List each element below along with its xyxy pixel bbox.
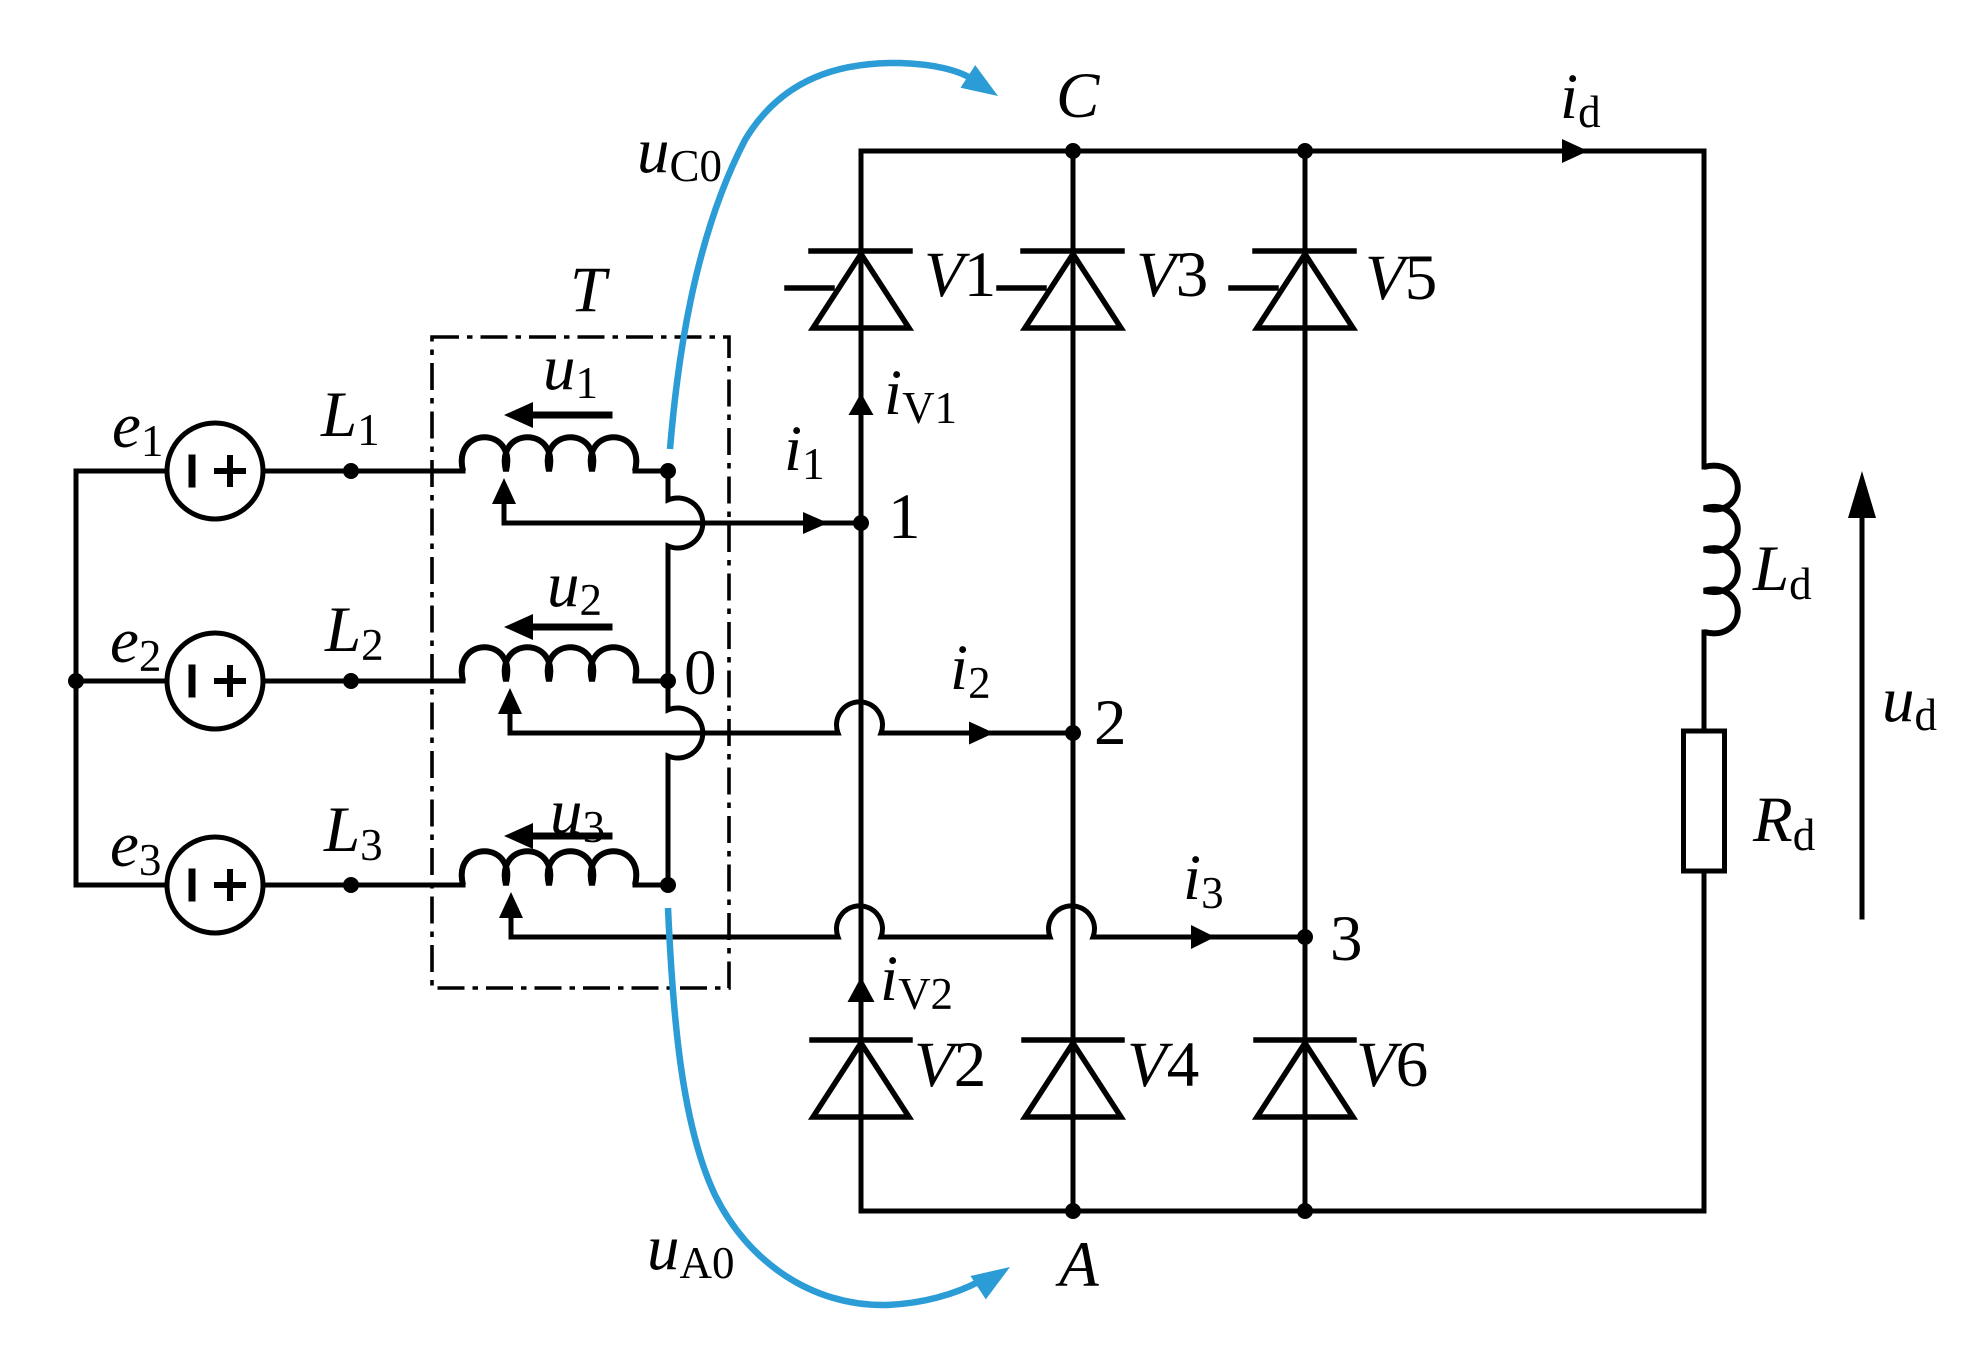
wire load branch top: [1702, 151, 1707, 467]
wire: [635, 679, 662, 684]
svg-text:V1: V1: [924, 239, 996, 311]
current arrow id: [1562, 139, 1588, 163]
voltage arrow ud: [1860, 505, 1865, 917]
wire bridge branch V5/V6: [1303, 151, 1308, 1211]
svg-text:0: 0: [684, 637, 717, 709]
junction dot node L: [343, 673, 359, 689]
resistor Rd: [1684, 731, 1725, 871]
wire: [76, 469, 167, 474]
svg-text:V6: V6: [1356, 1029, 1428, 1101]
wire: [263, 469, 463, 474]
wire: [76, 679, 167, 684]
svg-text:C: C: [1056, 60, 1100, 132]
wire: [263, 883, 463, 888]
junction dot node 3: [1297, 929, 1313, 945]
wire: [635, 469, 662, 474]
inductor Ld coil: [1704, 466, 1738, 634]
junction dot node C: [1065, 143, 1081, 159]
junction dot node 2: [1065, 725, 1081, 741]
svg-text:2: 2: [1094, 687, 1127, 759]
wire phase 3 to node 3 with hops: [511, 906, 1305, 937]
current arrow i3: [1191, 925, 1215, 949]
current arrow iV2: [848, 977, 875, 1002]
thyristor V3: [999, 251, 1122, 328]
junction dot node 0: [660, 673, 676, 689]
voltage arrow u: [536, 412, 609, 419]
wire phase 1 to node 1: [504, 521, 861, 526]
junction dot top rail at V5: [1297, 143, 1313, 159]
current arrow i2: [969, 722, 994, 745]
svg-text:V5: V5: [1365, 242, 1437, 314]
wire load branch bottom: [1702, 871, 1707, 1211]
junction dot node A: [1297, 1203, 1313, 1219]
junction dot bottom rail at V4: [1065, 1203, 1081, 1219]
wire: [76, 883, 167, 888]
thyristor V1: [787, 251, 910, 328]
svg-text:V4: V4: [1127, 1029, 1199, 1101]
transformer winding u1 (coil): [462, 437, 637, 471]
thyristor V4: [1024, 1040, 1122, 1117]
wire star bus with crossover hops: [668, 471, 703, 885]
svg-text:V3: V3: [1136, 239, 1208, 311]
junction dot node L: [343, 463, 359, 479]
wire top rail (common cathode C): [861, 149, 1704, 154]
voltage source e3: [167, 837, 263, 933]
blue arc uA0 (A to 0): [668, 908, 980, 1305]
wire phase 2 tap with polarity arrow: [508, 715, 513, 733]
voltage arrow u: [536, 624, 609, 631]
junction dot winding3 end: [660, 877, 676, 893]
wire phase 3 tap with polarity arrow: [509, 919, 514, 937]
voltage arrow u: [536, 833, 609, 840]
junction dot left bus: [68, 673, 84, 689]
voltage source e1: [167, 423, 263, 519]
thyristor V5: [1231, 251, 1354, 328]
wire left bus: [74, 471, 79, 885]
junction dot node L: [343, 877, 359, 893]
transformer winding u2 (coil): [462, 647, 637, 681]
current arrow iV1: [849, 393, 874, 415]
transformer T dash-dot box: [432, 337, 729, 988]
wire bottom rail (common anode A): [861, 1209, 1704, 1214]
thyristor V6: [1256, 1040, 1354, 1117]
voltage source e2: [167, 633, 263, 729]
svg-text:A: A: [1055, 1229, 1099, 1301]
junction dot node 1: [853, 515, 869, 531]
wire bridge branch V1/V2: [859, 151, 864, 1211]
svg-text:T: T: [570, 254, 610, 326]
wire: [263, 679, 463, 684]
svg-text:1: 1: [888, 481, 921, 553]
blue arc uC0 (C to 0): [670, 63, 972, 449]
wire phase 1 tap with polarity arrow: [502, 505, 507, 523]
wire bridge branch V3/V4: [1071, 151, 1076, 1211]
wire: [1702, 632, 1707, 731]
wire phase 2 to node 2 with hop: [510, 702, 1073, 733]
thyristor V2: [812, 1040, 910, 1117]
svg-text:3: 3: [1330, 903, 1363, 975]
svg-text:V2: V2: [914, 1029, 986, 1101]
wire: [635, 883, 662, 888]
transformer winding u3 (coil): [462, 851, 637, 885]
junction dot winding1 end: [660, 463, 676, 479]
current arrow i1: [803, 512, 828, 534]
